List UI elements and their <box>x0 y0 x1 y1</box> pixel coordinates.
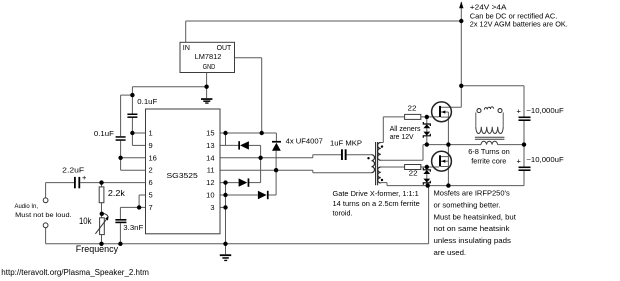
svg-text:14: 14 <box>206 153 214 162</box>
svg-text:toroid.: toroid. <box>333 209 353 218</box>
svg-text:3.3nF: 3.3nF <box>123 223 143 232</box>
svg-text:http://teravolt.org/Plasma_Spe: http://teravolt.org/Plasma_Speaker_2.htm <box>1 268 149 277</box>
svg-text:2.2k: 2.2k <box>108 189 126 198</box>
svg-text:OUT: OUT <box>217 45 232 52</box>
svg-text:unless insulating pads: unless insulating pads <box>434 236 512 245</box>
svg-text:22: 22 <box>408 104 417 113</box>
svg-text:Must not be loud.: Must not be loud. <box>15 212 72 219</box>
svg-text:15: 15 <box>206 129 214 138</box>
svg-text:7: 7 <box>149 203 153 212</box>
svg-text:2x 12V AGM batteries are OK.: 2x 12V AGM batteries are OK. <box>470 20 568 29</box>
svg-text:12: 12 <box>206 178 214 187</box>
svg-text:22: 22 <box>409 168 418 177</box>
svg-text:+: + <box>517 156 522 165</box>
svg-text:+: + <box>82 173 87 182</box>
svg-text:13: 13 <box>206 141 214 150</box>
svg-text:0.1uF: 0.1uF <box>137 97 157 106</box>
svg-text:9: 9 <box>149 141 153 150</box>
svg-text:are 12V: are 12V <box>390 132 414 141</box>
svg-text:16: 16 <box>149 153 157 162</box>
svg-text:11: 11 <box>207 166 215 175</box>
svg-text:6-8 Turns on: 6-8 Turns on <box>468 147 510 156</box>
svg-text:10k: 10k <box>79 216 92 226</box>
svg-text:5: 5 <box>149 191 153 200</box>
svg-text:IN: IN <box>183 45 190 52</box>
svg-text:not on same heatsink: not on same heatsink <box>434 224 510 233</box>
svg-text:Must be heatsinked, but: Must be heatsinked, but <box>434 212 517 221</box>
svg-text:~10,000uF: ~10,000uF <box>526 155 564 164</box>
svg-text:~10,000uF: ~10,000uF <box>526 106 564 115</box>
svg-text:0.1uF: 0.1uF <box>94 129 114 138</box>
svg-text:14 turns on a 2.5cm ferrite: 14 turns on a 2.5cm ferrite <box>333 199 420 208</box>
svg-text:10: 10 <box>206 191 214 200</box>
svg-text:4x UF4007: 4x UF4007 <box>286 137 323 146</box>
svg-text:2: 2 <box>149 166 153 175</box>
svg-text:Gate Drive X-former, 1:1:1: Gate Drive X-former, 1:1:1 <box>333 189 419 198</box>
svg-text:GND: GND <box>203 64 216 71</box>
svg-text:Frequency: Frequency <box>76 244 119 254</box>
svg-text:ferrite core: ferrite core <box>471 156 506 165</box>
svg-text:LM7812: LM7812 <box>195 54 222 61</box>
svg-text:SG3525: SG3525 <box>167 171 198 180</box>
svg-text:Mosfets are IRFP250's: Mosfets are IRFP250's <box>434 189 510 198</box>
svg-text:1: 1 <box>149 129 153 138</box>
svg-text:1uF MKP: 1uF MKP <box>330 139 362 148</box>
svg-text:3: 3 <box>210 203 214 212</box>
svg-text:are used.: are used. <box>434 248 467 257</box>
svg-text:6: 6 <box>149 178 153 187</box>
svg-text:or something better.: or something better. <box>434 201 501 210</box>
svg-text:Audio In,: Audio In, <box>15 203 39 210</box>
svg-text:+: + <box>517 107 522 116</box>
